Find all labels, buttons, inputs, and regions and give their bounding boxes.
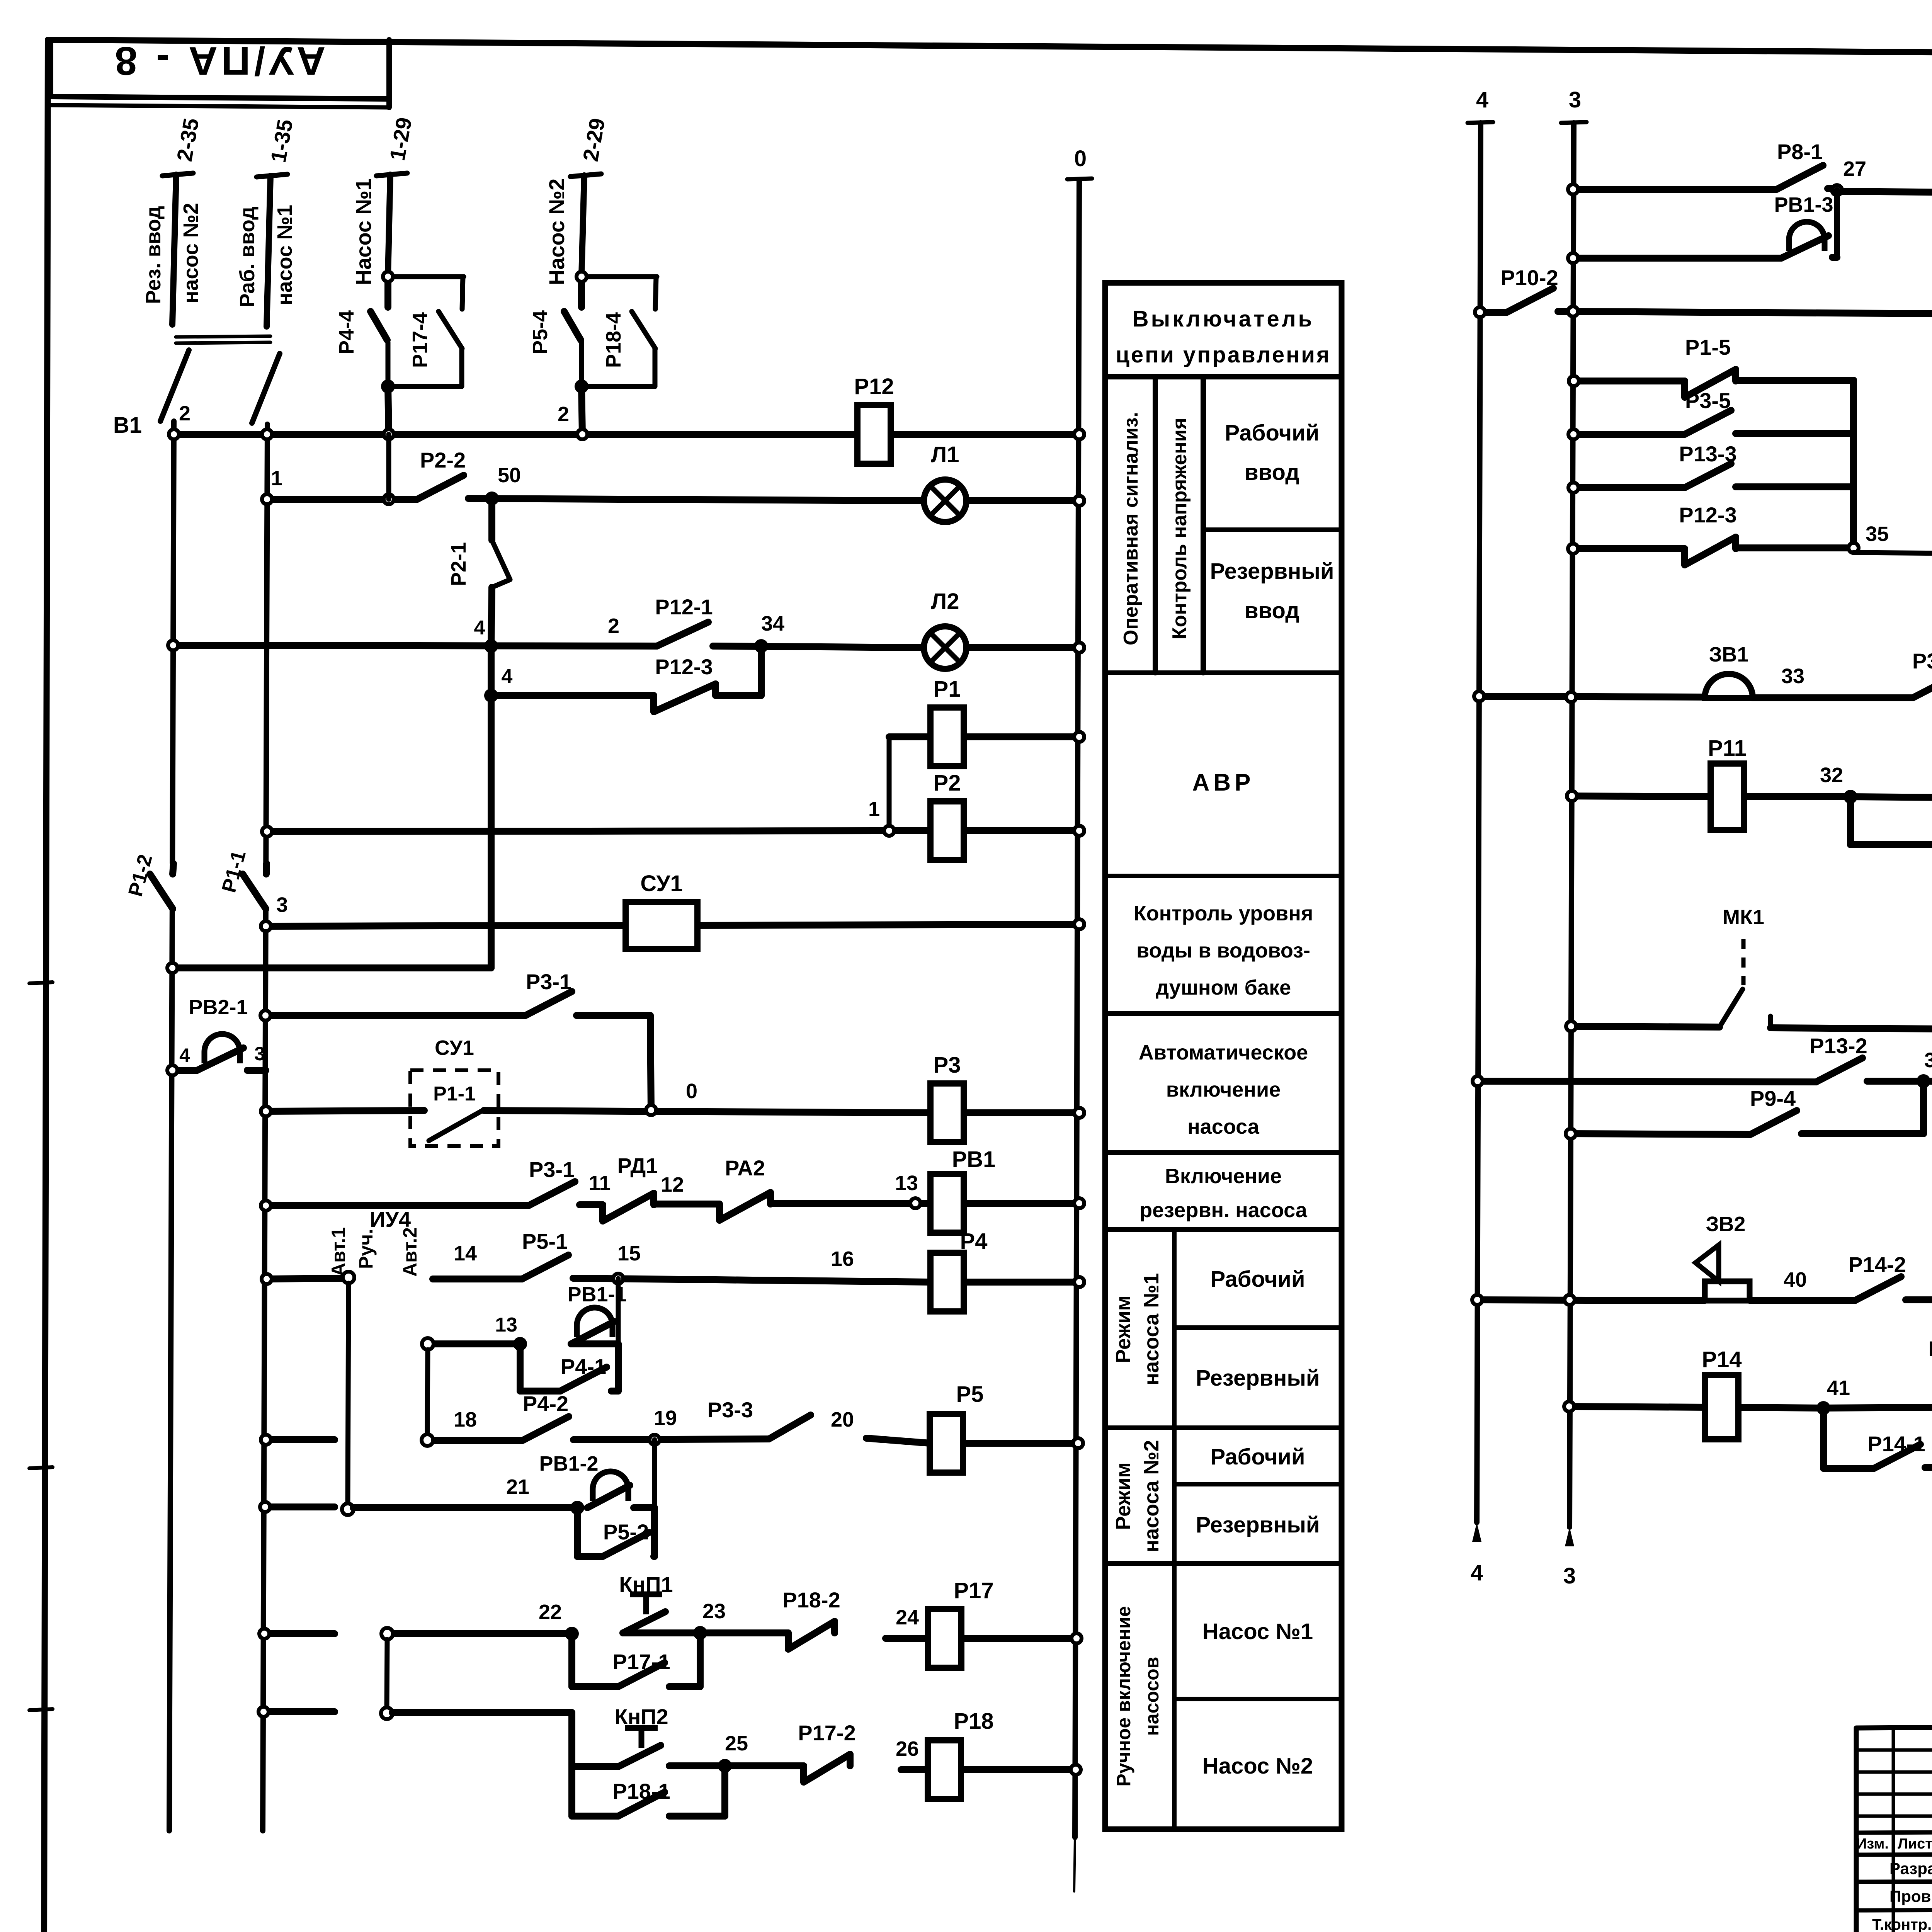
svg-text:25: 25 xyxy=(725,1732,748,1755)
junction rung32 rail3 xyxy=(1567,791,1577,801)
svg-text:В1: В1 xyxy=(113,413,142,438)
junction rung37 rail4 xyxy=(1473,1076,1483,1086)
junction РВ2-1 rail1 xyxy=(167,1065,177,1075)
node 0 (АВН) xyxy=(646,1105,656,1115)
left frame fold tick y3798 xyxy=(29,1467,53,1468)
junction КнСг1 rail3 xyxy=(1568,306,1578,316)
junction rung3 rail0 xyxy=(1074,919,1084,929)
junction Р1-5 rail3 xyxy=(1569,376,1579,386)
svg-text:Руч.: Руч. xyxy=(355,1229,377,1269)
svg-text:26: 26 xyxy=(896,1737,919,1760)
junction rung25 rail0 xyxy=(1071,1765,1081,1775)
svg-text:Р2-1: Р2-1 xyxy=(447,542,470,586)
svg-text:3: 3 xyxy=(254,1043,265,1065)
svg-text:Р5-1: Р5-1 xyxy=(522,1229,568,1253)
contact Р1-2 on rail1 xyxy=(150,864,173,909)
wire rung КнСг1 xyxy=(1480,311,1932,316)
left table row line 3436 (sub) xyxy=(1174,1325,1342,1330)
contact Р3-7 xyxy=(1912,649,1932,698)
svg-text:Авт.2: Авт.2 xyxy=(399,1227,421,1277)
time contact РВ1-3 xyxy=(1781,222,1828,258)
svg-text:РВ1-3: РВ1-3 xyxy=(1774,193,1833,216)
svg-text:СУ1: СУ1 xyxy=(435,1036,474,1060)
junction Р3-1 rail2 xyxy=(260,1010,270,1020)
wire rung РВН xyxy=(266,1203,1079,1206)
svg-text:Пров.: Пров. xyxy=(1889,1887,1932,1905)
svg-text:18: 18 xyxy=(454,1408,477,1431)
node 4 lower xyxy=(486,690,496,701)
svg-text:насоса №2: насоса №2 xyxy=(1140,1440,1163,1553)
contact Р17-4 loop xyxy=(388,277,464,386)
svg-text:1: 1 xyxy=(868,798,880,821)
junction rung1 насос1 drop xyxy=(384,494,394,504)
wire rung 37 xyxy=(1478,1081,1932,1083)
contact Р2-2 xyxy=(417,448,466,499)
svg-text:Р1-1: Р1-1 xyxy=(433,1083,476,1105)
svg-text:Насос №1: Насос №1 xyxy=(1202,1619,1313,1644)
svg-text:Р3-1: Р3-1 xyxy=(526,969,571,994)
relay coil Р3 xyxy=(930,1053,964,1142)
svg-text:Рабочий: Рабочий xyxy=(1211,1267,1305,1292)
svg-text:Р9-4: Р9-4 xyxy=(1750,1086,1796,1111)
wire branch Р18-1 xyxy=(572,1766,725,1816)
left table row line 2623 xyxy=(1105,1011,1342,1016)
svg-text:МК1: МК1 xyxy=(1723,906,1764,929)
switch B1 mechanical link xyxy=(176,336,270,343)
junction bus2 насос2 xyxy=(577,429,587,439)
title left column labels xyxy=(1856,1835,1932,1932)
left frame fold tick y4424 xyxy=(29,1709,53,1710)
relay coil Р1 xyxy=(930,677,964,766)
svg-text:Р17-1: Р17-1 xyxy=(612,1650,670,1674)
contact Р4-2 xyxy=(522,1391,569,1440)
svg-text:Р8-1: Р8-1 xyxy=(1777,139,1823,164)
selector pole v3 top xyxy=(381,1628,393,1639)
cell Резервный ввод xyxy=(1210,559,1334,623)
junction КнСг1 rail4 xyxy=(1475,307,1485,317)
node 50 xyxy=(487,493,497,503)
wire насос1 drop to bus 2 xyxy=(388,386,389,434)
svg-text:насоса №1: насоса №1 xyxy=(1140,1273,1163,1386)
svg-text:Включение: Включение xyxy=(1165,1165,1282,1188)
left table col divider 1 xyxy=(1153,377,1158,673)
svg-text:Разраб.: Разраб. xyxy=(1889,1859,1932,1878)
selector pole v2 bottom xyxy=(422,1434,433,1446)
junction Р8-1 rail3 xyxy=(1568,184,1578,194)
contact Р1-5 xyxy=(1685,335,1736,397)
feed lead 1-29 (Насос №1) xyxy=(376,173,407,276)
wire rung 14 (Режим1 Рабочий) xyxy=(267,1278,1079,1282)
svg-text:Р14-1: Р14-1 xyxy=(1867,1432,1925,1456)
contact РА2 xyxy=(719,1156,770,1220)
svg-text:насоса: насоса xyxy=(1187,1115,1260,1138)
svg-text:32: 32 xyxy=(1820,764,1843,787)
contact Р14-1 xyxy=(1867,1432,1925,1468)
junction Р9-4 rail3 xyxy=(1566,1129,1576,1139)
svg-text:Р3-3: Р3-3 xyxy=(707,1398,753,1422)
cell Контроль уровня воды xyxy=(1134,902,1313,999)
contact Р4-1 xyxy=(560,1354,607,1391)
svg-text:50: 50 xyxy=(498,464,521,487)
svg-text:Р5: Р5 xyxy=(956,1382,984,1407)
contact МК1 with dashed stem xyxy=(1719,939,1770,1028)
svg-text:Оперативная сигнализ.: Оперативная сигнализ. xyxy=(1120,412,1142,645)
siren ЗВ2 xyxy=(1696,1245,1750,1301)
svg-text:РВ1-1: РВ1-1 xyxy=(567,1283,626,1306)
wire насос2 drop to bus 2 xyxy=(582,386,582,434)
node 1 (АВР) xyxy=(884,826,894,836)
node 1 rail2 xyxy=(262,494,272,504)
relay coil Р4 xyxy=(930,1229,987,1311)
node 37 xyxy=(1918,1076,1929,1086)
svg-text:Контроль напряжения: Контроль напряжения xyxy=(1168,418,1191,639)
svg-text:РА2: РА2 xyxy=(725,1156,765,1180)
junction rung22 rail2 xyxy=(259,1629,269,1639)
svg-text:Р3: Р3 xyxy=(934,1053,961,1078)
contact Р18-4 loop xyxy=(582,277,657,386)
cell Рабочий ввод xyxy=(1225,420,1320,485)
rail 0 top tick and label xyxy=(1067,179,1092,179)
sensor coil СУ1 xyxy=(626,871,697,949)
svg-text:3: 3 xyxy=(1563,1563,1576,1588)
junction rungР2 rail2 xyxy=(262,827,272,837)
svg-text:СУ1: СУ1 xyxy=(640,871,682,896)
wire rung 33 Звонок xyxy=(1479,696,1932,699)
rail 0 left needle end xyxy=(1074,1837,1075,1891)
contact Р3-5 xyxy=(1685,388,1731,434)
left table header text xyxy=(1116,306,1331,367)
node 13 selector xyxy=(515,1339,525,1349)
relay coil Р14 xyxy=(1702,1347,1742,1439)
svg-text:4: 4 xyxy=(502,665,513,688)
svg-text:15: 15 xyxy=(617,1242,641,1265)
junction rung21 rail2 xyxy=(260,1502,270,1512)
top-left stamp box xyxy=(51,40,389,107)
svg-text:4: 4 xyxy=(474,617,485,639)
wire branch 13 РВ1-1 xyxy=(434,1340,618,1347)
wire РВ2-1 link xyxy=(172,1067,266,1074)
svg-text:Раб. ввод: Раб. ввод xyxy=(236,207,259,308)
junction rung1 rail0 xyxy=(1074,496,1084,506)
svg-text:РВ1: РВ1 xyxy=(952,1147,996,1172)
svg-text:Р5-4: Р5-4 xyxy=(529,310,552,354)
svg-text:ЗВ2: ЗВ2 xyxy=(1706,1213,1746,1236)
node 25 xyxy=(720,1761,730,1771)
junction РВН rail0 xyxy=(1074,1198,1084,1208)
contact Р8-1 xyxy=(1777,139,1823,189)
svg-text:40: 40 xyxy=(1784,1268,1807,1291)
svg-text:Р12-3: Р12-3 xyxy=(655,655,713,679)
svg-text:Рабочий: Рабочий xyxy=(1211,1444,1305,1469)
svg-text:Р10-2: Р10-2 xyxy=(1500,265,1558,290)
relay coil РВ1 xyxy=(930,1147,995,1233)
lamp Л2 xyxy=(924,589,966,669)
svg-text:2: 2 xyxy=(558,403,569,426)
contact Р3-1 (upper) xyxy=(526,969,572,1015)
svg-text:Р3-1: Р3-1 xyxy=(529,1157,575,1182)
switch B1 blade pole 2 xyxy=(252,354,280,423)
node насос1 bottom xyxy=(383,381,393,391)
svg-text:Р12-3: Р12-3 xyxy=(1679,503,1736,527)
wire rung 34 (Резервный ввод) xyxy=(173,645,1079,648)
svg-text:11: 11 xyxy=(588,1172,611,1195)
svg-text:21: 21 xyxy=(506,1475,529,1498)
svg-text:КнП1: КнП1 xyxy=(619,1572,673,1597)
svg-text:Р18-2: Р18-2 xyxy=(782,1588,840,1612)
svg-text:Р17-2: Р17-2 xyxy=(798,1721,855,1745)
rail 4 bottom arrow xyxy=(1472,1522,1481,1542)
svg-text:13: 13 xyxy=(495,1314,517,1336)
svg-text:Резервный: Резервный xyxy=(1210,559,1334,584)
junction bus2 rail1 xyxy=(169,429,179,439)
svg-text:Р18: Р18 xyxy=(954,1709,993,1734)
junction звонок rail3 xyxy=(1566,692,1576,702)
svg-text:33: 33 xyxy=(1781,665,1804,688)
node насос1 top xyxy=(383,272,393,282)
contact РД1 xyxy=(603,1153,658,1221)
junction rung25 rail2 xyxy=(259,1707,269,1717)
node 3 rail2 xyxy=(261,921,271,931)
svg-text:Р13-3: Р13-3 xyxy=(1679,442,1736,466)
svg-text:0: 0 xyxy=(686,1080,697,1103)
left table row line 3841 (sub) xyxy=(1174,1482,1342,1486)
svg-text:4: 4 xyxy=(1471,1560,1483,1585)
contact Р18-1 xyxy=(612,1779,670,1816)
selector pole bottom v1 xyxy=(342,1503,354,1515)
svg-text:Режим: Режим xyxy=(1112,1295,1135,1363)
contact Р18-2 xyxy=(782,1588,840,1649)
wire branch Р17-1 xyxy=(572,1633,700,1687)
node 22 xyxy=(567,1629,577,1639)
svg-text:Р3-5: Р3-5 xyxy=(1685,388,1731,413)
svg-text:Р14-2: Р14-2 xyxy=(1848,1252,1906,1277)
svg-text:ввод: ввод xyxy=(1245,460,1299,485)
contact Р3-3 xyxy=(707,1398,811,1439)
svg-text:воды в водовоз-: воды в водовоз- xyxy=(1136,939,1310,962)
feed lead 2-35 (Рез. ввод насос №2) xyxy=(162,173,193,325)
svg-text:3: 3 xyxy=(1569,87,1581,112)
svg-text:Р4-4: Р4-4 xyxy=(335,310,358,354)
svg-text:Режим: Режим xyxy=(1112,1462,1135,1530)
contact Р12-3 xyxy=(654,655,716,712)
svg-text:Л2: Л2 xyxy=(931,589,959,614)
wire branch Р11-1 xyxy=(1850,797,1932,845)
junction АВН rail0 xyxy=(1074,1108,1084,1118)
relay coil Р11 xyxy=(1708,736,1747,830)
wire bus 2 xyxy=(174,431,1079,438)
svg-text:РД1: РД1 xyxy=(617,1153,658,1178)
junction bus2 rail0 xyxy=(1074,429,1084,439)
wire rung Р2 (АВР lower) xyxy=(267,831,1079,832)
node 27 xyxy=(1832,185,1842,195)
contact Р17-1 xyxy=(612,1650,670,1687)
svg-text:включение: включение xyxy=(1166,1078,1281,1101)
left table row line 1741 xyxy=(1105,670,1342,675)
svg-text:37: 37 xyxy=(1924,1049,1932,1072)
svg-text:Р14: Р14 xyxy=(1702,1347,1742,1372)
svg-text:34: 34 xyxy=(761,612,784,635)
svg-text:Р18-1: Р18-1 xyxy=(612,1779,670,1803)
svg-text:Контроль уровня: Контроль уровня xyxy=(1134,902,1313,925)
selector link vertical 3 xyxy=(387,1639,387,1708)
wire rung 36 xyxy=(1571,1026,1932,1032)
svg-text:Л1: Л1 xyxy=(931,442,959,467)
selector pole Авт.1 xyxy=(343,1272,354,1283)
svg-text:Насос №2: Насос №2 xyxy=(1202,1753,1313,1779)
junction rungР1 rail0 xyxy=(1074,732,1084,742)
time contact РВ2-1 xyxy=(197,1034,243,1070)
svg-text:АУ/ПА - 8: АУ/ПА - 8 xyxy=(111,38,326,83)
relay coil Р12 xyxy=(854,374,894,464)
junction РВ1-3 rail3 xyxy=(1568,253,1578,263)
wire node15 drop xyxy=(616,1279,621,1344)
svg-text:27: 27 xyxy=(1843,157,1866,180)
junction bus2 rail2 xyxy=(262,429,272,439)
svg-text:Р12: Р12 xyxy=(854,374,894,399)
svg-text:35: 35 xyxy=(1866,522,1889,546)
svg-text:Р3-7: Р3-7 xyxy=(1912,649,1932,673)
junction rung34 rail1 xyxy=(168,640,178,650)
wire branch РВ1-3 xyxy=(1573,257,1837,258)
svg-text:Р12-1: Р12-1 xyxy=(655,595,713,619)
svg-text:Р2-2: Р2-2 xyxy=(420,448,466,472)
feed lead 1-35 (Раб. ввод насос №1) xyxy=(257,174,287,327)
svg-text:22: 22 xyxy=(539,1600,562,1624)
junction rung14 rail0 xyxy=(1074,1277,1084,1287)
svg-text:1: 1 xyxy=(271,467,282,490)
svg-text:резервн. насоса: резервн. насоса xyxy=(1139,1199,1308,1222)
junction rung34 vertical50 xyxy=(486,641,496,651)
cell Включение резервн. насоса xyxy=(1139,1165,1308,1222)
svg-text:КнСг2: КнСг2 xyxy=(1929,1337,1932,1361)
node насос2 bottom xyxy=(577,381,587,391)
wire rung 3 (Контроль уровня) xyxy=(266,924,1079,926)
node 19 xyxy=(650,1435,660,1445)
button КнП2 xyxy=(614,1704,668,1767)
junction rung18 rail0 xyxy=(1073,1438,1083,1448)
left table outer box xyxy=(1105,283,1342,1829)
junction РВН rail2 xyxy=(261,1201,271,1211)
svg-text:20: 20 xyxy=(831,1408,854,1431)
wire link 2505 xyxy=(172,696,491,968)
svg-text:2: 2 xyxy=(179,402,190,425)
wire rung Р12-3right xyxy=(1573,548,1854,549)
wire branch Р9-4 xyxy=(1571,1081,1923,1134)
svg-text:Резервный: Резервный xyxy=(1196,1366,1320,1391)
junction rung18 rail2 xyxy=(261,1435,271,1445)
svg-text:душном баке: душном баке xyxy=(1156,976,1291,999)
contact Р5-1 xyxy=(522,1229,568,1279)
svg-text:23: 23 xyxy=(702,1600,726,1623)
contact Р5-2 xyxy=(603,1520,649,1556)
node 13 (РВН) xyxy=(910,1198,920,1208)
svg-text:АВР: АВР xyxy=(1192,769,1255,796)
rail 3 (right ladder) xyxy=(1561,122,1587,1527)
svg-text:2: 2 xyxy=(608,614,619,638)
wire rung 32 xyxy=(1572,796,1932,798)
svg-text:цепи управления: цепи управления xyxy=(1116,342,1331,367)
feed lead 2-29 (Насос №2) xyxy=(570,174,601,276)
time contact РВ1-2 xyxy=(587,1471,630,1508)
svg-text:ЗВ1: ЗВ1 xyxy=(1709,643,1749,666)
bell ЗВ1 xyxy=(1705,674,1753,698)
svg-text:Р17: Р17 xyxy=(954,1578,993,1603)
contact Р3-1 (РВН) xyxy=(529,1157,575,1206)
wire rung Р3-1 upper xyxy=(265,1015,651,1110)
svg-text:Выключатель: Выключатель xyxy=(1133,306,1314,332)
svg-text:0: 0 xyxy=(1074,146,1087,171)
selector pole v2 top xyxy=(422,1338,434,1350)
svg-text:41: 41 xyxy=(1827,1376,1850,1400)
svg-text:Авт.1: Авт.1 xyxy=(328,1227,349,1277)
contact Р13-3 xyxy=(1679,442,1736,488)
junction rung41 rail3 xyxy=(1564,1401,1574,1412)
wire rung Р13-3 xyxy=(1573,487,1854,488)
svg-text:Рез. ввод: Рез. ввод xyxy=(142,206,165,304)
svg-text:РВ2-1: РВ2-1 xyxy=(189,996,248,1019)
svg-text:Р1: Р1 xyxy=(934,677,961,702)
left table col divider Режим1 xyxy=(1172,1230,1177,1829)
wire link Р1-Р2 xyxy=(887,737,892,831)
left table row line 3182 xyxy=(1105,1227,1342,1232)
node 41 xyxy=(1818,1403,1828,1413)
wire rung 41 xyxy=(1569,1406,1932,1408)
node 15 xyxy=(613,1274,623,1284)
junction АВН rail2 xyxy=(261,1106,271,1116)
wire rung Р8-1 xyxy=(1573,189,1932,195)
left table row line 4046 xyxy=(1105,1561,1342,1566)
relay coil Р18 xyxy=(928,1709,994,1799)
contact Р4-4 xyxy=(371,279,388,340)
contact Р14-2 xyxy=(1848,1252,1906,1301)
svg-text:Насос №1: Насос №1 xyxy=(351,179,376,285)
svg-text:12: 12 xyxy=(661,1173,684,1196)
button КнП1 xyxy=(619,1572,673,1633)
left table row line 2267 xyxy=(1105,874,1342,878)
wire rung 25 (Ручное Насос2) xyxy=(264,1712,1076,1770)
svg-text:Р5-2: Р5-2 xyxy=(603,1520,649,1544)
wire branch Р4-1 xyxy=(520,1344,618,1391)
wire branch Р5-2 xyxy=(577,1508,655,1556)
svg-text:насос №2: насос №2 xyxy=(179,203,202,303)
svg-text:Р4: Р4 xyxy=(960,1229,988,1254)
junction rung40 rail3 xyxy=(1565,1295,1575,1305)
node 34 xyxy=(756,641,766,651)
contact Р9-4 xyxy=(1750,1086,1797,1134)
svg-text:Р11: Р11 xyxy=(1708,736,1747,761)
rail 0 left (common) xyxy=(1075,180,1079,1837)
cell Автоматическое включение насоса xyxy=(1139,1041,1308,1138)
svg-text:4: 4 xyxy=(179,1044,190,1066)
contact Р5-4 xyxy=(564,279,582,340)
node насос2 top xyxy=(577,272,587,282)
svg-text:16: 16 xyxy=(831,1247,854,1270)
node 23 xyxy=(695,1628,705,1638)
relay coil Р2 xyxy=(930,770,964,860)
contact Р2-1 xyxy=(492,540,510,587)
contact Р1-1 on rail2 xyxy=(243,864,267,909)
wire branch Р12-3 xyxy=(491,646,761,696)
wire 35 to РВ2 xyxy=(1854,553,1932,556)
contact Р12-3 (right) xyxy=(1679,503,1736,565)
junction Р13-3 rail3 xyxy=(1568,483,1578,493)
left table header row line xyxy=(1105,374,1342,379)
relay coil Р5 xyxy=(930,1382,983,1473)
wire rung Р3-5 xyxy=(1573,434,1854,434)
wire rung 40 xyxy=(1477,1299,1932,1301)
left table row line 2983 xyxy=(1105,1150,1342,1155)
rail 2 (second vertical) xyxy=(263,424,267,1831)
